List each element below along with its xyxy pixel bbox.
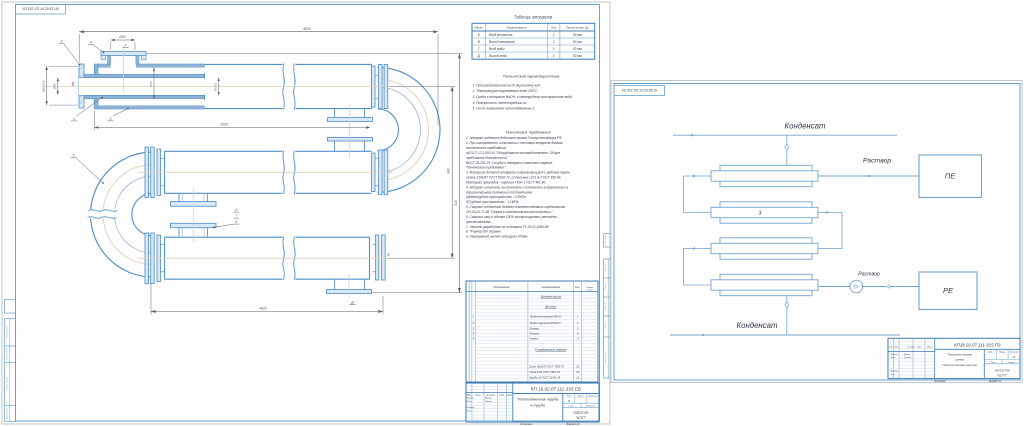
main title block (left sheet) [466, 383, 599, 426]
svg-text:Проход условн. Ду: Проход условн. Ду [566, 25, 589, 29]
svg-text:Дата: Дата [506, 394, 512, 396]
nozzle letter B inner tube [72, 82, 76, 88]
svg-text:Подп.: Подп. [917, 346, 922, 349]
connector element3-element4 (left) [684, 247, 712, 285]
svg-text:Лист: Лист [894, 347, 900, 349]
svg-text:Б: Б [478, 33, 480, 37]
svg-text:ПЕ: ПЕ [945, 172, 956, 181]
svg-text:КП 18.02.07.111-315.СБ: КП 18.02.07.111-315.СБ [22, 7, 59, 11]
svg-text:4600: 4600 [259, 306, 267, 310]
svg-text:Утв.: Утв. [891, 374, 896, 376]
svg-text:Разраб.: Разраб. [467, 398, 474, 400]
U-bend right (row1 to row2) [378, 67, 441, 192]
row2 right flange pair [372, 150, 388, 195]
svg-text:Кол: Кол [551, 25, 556, 29]
fittings table [472, 23, 595, 59]
svg-text:Масштаб: Масштаб [588, 396, 598, 398]
svg-text:Г: Г [478, 47, 480, 51]
nozzle letter D row3 bottom [350, 301, 356, 305]
nozzle on top of row2 right [328, 137, 373, 151]
position labels 6 7 8 [213, 208, 239, 228]
svg-text:Обозн.: Обозн. [474, 25, 483, 29]
svg-text:Формат А1: Формат А1 [566, 423, 580, 426]
svg-text:Н.контр.: Н.контр. [891, 371, 899, 373]
svg-text:Ø89х4,5*: Ø89х4,5* [42, 79, 46, 93]
svg-text:3: 3 [61, 40, 63, 44]
dimension 840 vertical [388, 87, 455, 259]
exchanger element 2 [711, 202, 818, 223]
svg-text:7: 7 [236, 214, 238, 218]
technical requirements text [465, 131, 571, 239]
svg-text:Лист: Лист [990, 362, 996, 364]
svg-text:Взам. инв.№: Взам. инв.№ [6, 376, 9, 389]
svg-text:Пояснительная записка: Пояснительная записка [942, 363, 977, 367]
svg-text:Масса: Масса [578, 396, 585, 398]
svg-text:Теплообменник труба: Теплообменник труба [517, 396, 559, 401]
svg-text:Колено: Колено [530, 337, 540, 341]
svg-text:ВОСТ 26-291-79 "Сосуды и аппар: ВОСТ 26-291-79 "Сосуды и аппараты стальн… [466, 161, 553, 165]
right margin stamp boxes [603, 234, 613, 378]
svg-text:Дата: Дата [926, 347, 932, 349]
right sheet paper [611, 81, 1022, 383]
exchanger element 3 [711, 238, 818, 259]
svg-text:3. Среда в аппарате NaOH, в ме: 3. Среда в аппарате NaOH, в межтрубном п… [473, 95, 573, 99]
svg-text:ГАПОУ РБ: ГАПОУ РБ [573, 411, 588, 415]
nozzle D under row3 right [327, 279, 372, 293]
svg-text:8. *Размер для справок: 8. *Размер для справок [466, 230, 501, 234]
svg-text:5: 5 [73, 153, 75, 157]
svg-text:1600: 1600 [220, 122, 228, 126]
svg-text:РЕ: РЕ [943, 286, 954, 295]
svg-text:КП18.02.07.111-315.ПЗ: КП18.02.07.111-315.ПЗ [622, 88, 657, 92]
svg-text:Ø57х3: Ø57х3 [214, 83, 218, 92]
svg-text:Вход воды: Вход воды [489, 47, 505, 51]
svg-text:Масса: Масса [999, 351, 1005, 353]
svg-text:1. Аппарат подлежит действию п: 1. Аппарат подлежит действию правил Госг… [466, 136, 562, 140]
svg-text:Раствор: Раствор [863, 158, 892, 165]
connector element2-element3 (right) [818, 211, 842, 248]
svg-text:Лит.: Лит. [565, 396, 571, 398]
svg-text:Инв.№ подл.: Инв.№ подл. [6, 326, 9, 338]
centerline nozzle G [122, 45, 124, 92]
svg-text:1: 1 [553, 47, 555, 51]
svg-text:И: И [568, 399, 570, 403]
svg-text:1: 1 [553, 40, 555, 44]
position label 5 [71, 153, 104, 184]
connector element1-element2 (left) [684, 175, 712, 213]
row2 left flange pair [145, 147, 165, 197]
svg-text:Стандартные изделия: Стандартные изделия [535, 348, 567, 352]
svg-text:Инв. №: Инв. № [604, 302, 607, 310]
centerline row2 [138, 171, 392, 173]
svg-text:Наименование: Наименование [507, 25, 527, 29]
row3 left flange pair [145, 233, 165, 283]
svg-text:Иванов: Иванов [485, 398, 491, 400]
solution line element1 to PE box [818, 158, 919, 178]
svg-text:Труба наружная Ø76х3,5: Труба наружная Ø76х3,5 [530, 321, 562, 325]
row2 pipe body [165, 151, 372, 194]
svg-text:Фланец: Фланец [530, 327, 540, 331]
svg-text:сталь Х18Н9Т ГОСТ 5632-72, ост: сталь Х18Н9Т ГОСТ 5632-72, остальных Ст3… [466, 176, 561, 180]
svg-text:Фланец: Фланец [530, 332, 540, 336]
svg-text:Выход метанола: Выход метанола [489, 40, 515, 44]
svg-text:1. Производительность по Ацети: 1. Производительность по Ацетилену кг/ч [473, 83, 541, 87]
svg-text:Материал прокладок - паронит П: Материал прокладок - паронит ПОН-1 ГОСТ … [466, 180, 546, 184]
svg-text:Кол.: Кол. [575, 286, 580, 289]
flange F1 (left, welded neck) [79, 64, 84, 108]
exchanger element 4 [711, 274, 818, 295]
svg-text:50 мм: 50 мм [573, 33, 583, 37]
svg-text:"КСПТ": "КСПТ" [997, 374, 1008, 378]
svg-text:Конденсат: Конденсат [785, 122, 826, 131]
svg-text:5. Сварные соединения должны с: 5. Сварные соединения должны соответство… [466, 205, 566, 209]
dimension 4600 bottom [151, 283, 383, 315]
svg-text:а)ГОСТ 12.2.003-91 "Оборудован: а)ГОСТ 12.2.003-91 "Оборудование произво… [466, 151, 560, 155]
left margin stamp boxes [5, 300, 16, 422]
svg-text:Пров.: Пров. [467, 401, 472, 403]
nozzle G (top, with flange) [101, 52, 146, 68]
svg-text:Подп.: Подп. [604, 284, 607, 290]
svg-text:Ковалев: Ковалев [904, 357, 911, 359]
svg-text:Формат А4: Формат А4 [989, 380, 1002, 383]
left sheet paper [2, 2, 610, 424]
svg-text:Инв.№ дубл.: Инв.№ дубл. [6, 407, 9, 419]
svg-text:Гайка М16 ГОСТ 5915-70: Гайка М16 ГОСТ 5915-70 [530, 370, 561, 374]
svg-text:Раствор: Раствор [858, 272, 880, 278]
svg-text:4: 4 [90, 41, 92, 45]
right sheet frame [614, 84, 1020, 381]
dimension d40 left inner [53, 78, 59, 95]
svg-text:Труба внутренняя Ø57х3: Труба внутренняя Ø57х3 [530, 315, 563, 319]
dimension d57 in pipe [214, 78, 220, 96]
svg-text:просвечиванием.: просвечиванием. [466, 220, 491, 224]
centerline nozzles mid left [192, 188, 194, 242]
svg-text:Копировал: Копировал [934, 381, 946, 383]
svg-text:1: 1 [553, 33, 555, 37]
technical characteristic text [472, 74, 573, 111]
svg-text:Подп.: Подп. [499, 393, 505, 396]
position label 1 [71, 97, 103, 121]
svg-text:В: В [387, 253, 390, 257]
svg-text:50 мм: 50 мм [573, 40, 583, 44]
centerline row3 [138, 257, 390, 259]
line element4 to pump [818, 286, 850, 288]
position label 3 [59, 40, 81, 66]
pump [850, 280, 863, 293]
svg-text:№ докум.: № докум. [907, 346, 915, 349]
svg-text:Листов: Листов [1007, 362, 1015, 364]
nozzle on top of row3 left [171, 223, 217, 237]
left sheet corner stamp (rotated doc number) [16, 5, 66, 15]
nozzle under row2 left [171, 193, 217, 206]
svg-text:Наименование: Наименование [542, 285, 561, 289]
svg-text:9. Неуказанный вылет штуцеров: 9. Неуказанный вылет штуцеров 100мм. [466, 235, 528, 239]
U-bend left (row2 to row3) [88, 152, 154, 277]
dimension d89x4.5 left [42, 66, 78, 105]
centerline nozzles mid right [349, 104, 351, 158]
svg-text:Выход воды: Выход воды [489, 54, 508, 58]
svg-text:2: 2 [109, 117, 112, 121]
svg-text:ОН-26-01-71-68 "Сварка в химич: ОН-26-01-71-68 "Сварка в химическом маши… [466, 210, 554, 214]
row3 right flange pair [373, 235, 386, 280]
svg-text:Технические требования: Технические требования [505, 131, 550, 135]
right sheet corner stamp [614, 86, 665, 96]
right sheet title block [888, 338, 1020, 383]
PE box [919, 155, 982, 198]
row1 right flange pair [372, 65, 388, 109]
svg-text:Копировал: Копировал [520, 423, 533, 426]
pump label rastvor [858, 272, 880, 278]
svg-text:Ковалев: Ковалев [485, 401, 492, 403]
svg-text:Справ. №: Справ. № [604, 263, 607, 273]
svg-text:840: 840 [447, 168, 451, 174]
svg-text:4800: 4800 [303, 27, 311, 31]
exchanger element 1 [711, 165, 818, 186]
svg-text:Иванов: Иванов [904, 354, 910, 356]
row3 pipe body [165, 237, 370, 280]
svg-text:Листов 1: Листов 1 [585, 406, 595, 408]
svg-text:Масштаб: Масштаб [1010, 351, 1019, 353]
svg-text:Вход метанола: Вход метанола [489, 33, 513, 37]
svg-text:2. При изготовлении, испытан: 2. При изготовлении, испытании и поставк… [465, 141, 564, 145]
svg-text:17: 17 [1012, 355, 1016, 359]
svg-text:2. Температура нагреваемой вод: 2. Температура нагреваемой воды 100°С [472, 89, 538, 93]
svg-text:Техническая характеристика: Техническая характеристика [503, 74, 560, 79]
svg-text:в трубе: в трубе [530, 402, 546, 407]
RE box [919, 272, 977, 310]
dimension 1600 [95, 111, 371, 130]
svg-text:50 мм: 50 мм [573, 54, 583, 58]
svg-text:горизонтальном положении под д: горизонтальном положении под давлением: [466, 190, 533, 194]
svg-text:6. Сварные швы в объеме 100% к: 6. Сварные швы в объеме 100% контролиров… [466, 215, 558, 219]
svg-text:Пров.: Пров. [891, 357, 896, 359]
svg-text:Подп.: Подп. [604, 323, 607, 329]
svg-text:Ø76: Ø76 [149, 81, 153, 87]
dimension d50 nozzle G [111, 35, 135, 50]
dimension 4800 (overall length) [79, 27, 438, 125]
svg-text:КП 16.02.07.111-315.СБ: КП 16.02.07.111-315.СБ [531, 387, 581, 392]
svg-text:Н.контр.: Н.контр. [467, 407, 475, 409]
line RE to pump [863, 285, 919, 288]
svg-text:Лит.: Лит. [987, 351, 993, 353]
svg-text:КП18.02.07.111-315.ПЗ: КП18.02.07.111-315.ПЗ [954, 342, 1001, 347]
svg-text:"КСПТ": "КСПТ" [576, 416, 588, 420]
svg-text:50 мм: 50 мм [573, 47, 583, 51]
condensate top line [673, 122, 897, 137]
drop to element1 with fitting symbol [785, 135, 789, 166]
svg-text:Утв.: Утв. [467, 410, 472, 412]
position label 2 [108, 108, 129, 121]
svg-text:3: 3 [759, 210, 762, 216]
svg-text:Детали: Детали [544, 305, 556, 309]
position label 4 [88, 41, 104, 54]
svg-text:7. Чертеж разработан на основа: 7. Чертеж разработан на основании ТУ 26-… [466, 225, 549, 229]
svg-text:требования безопасности.": требования безопасности." [466, 156, 510, 160]
centerline nozzle D [348, 274, 350, 298]
svg-text:б)Трубное пространство -: б)Трубное пространство - 1.1МПа [466, 200, 519, 204]
svg-text:Документация: Документация [540, 294, 562, 298]
svg-text:Болт М16х70 ГОСТ 7805-70: Болт М16х70 ГОСТ 7805-70 [530, 365, 565, 369]
centerline row1 [45, 86, 392, 88]
nozzle letter G [123, 43, 129, 47]
svg-text:ГАПОУ РБ: ГАПОУ РБ [995, 369, 1010, 373]
inner tube (pipe-in-pipe) [79, 73, 205, 100]
svg-text:№ докум.: № докум. [487, 393, 496, 396]
svg-text:1: 1 [73, 117, 75, 121]
svg-text:выполняться требования:: выполняться требования: [466, 146, 507, 150]
svg-text:5. Число элементов теплообменн: 5. Число элементов теплообменника 7. [473, 107, 536, 111]
svg-text:4. Аппарат испытать на прочно: 4. Аппарат испытать на прочность и плотн… [466, 185, 569, 189]
condensate bottom line [670, 321, 900, 336]
specification table [466, 281, 598, 382]
svg-text:Обозначение: Обозначение [493, 285, 510, 289]
svg-text:8: 8 [236, 220, 238, 224]
svg-text:910: 910 [454, 200, 458, 206]
row1 outer pipe thick walls (section) [95, 64, 205, 109]
row1 outer pipe body [95, 63, 372, 109]
nozzle letter V row3 [387, 253, 390, 257]
svg-text:Лист: Лист [474, 394, 480, 396]
dimension d76 in pipe [149, 68, 155, 99]
left sheet frame [16, 5, 600, 422]
svg-text:Инв.№ подл.: Инв.№ подл. [604, 351, 607, 363]
nozzle under row1 right [328, 109, 373, 121]
svg-text:схема: схема [955, 358, 964, 362]
svg-text:Технологическая: Технологическая [947, 353, 972, 357]
svg-text:4. Поверхность теплопередачи: 4. Поверхность теплопередачи м² [473, 101, 528, 105]
svg-text:Д: Д [350, 301, 354, 305]
svg-text:Перв. прим.: Перв. прим. [605, 234, 607, 246]
svg-text:Технические требования.": Технические требования." [466, 166, 507, 170]
svg-text:чание: чание [587, 289, 594, 291]
svg-text:а)Межтрубное пространство -: а)Межтрубное пространство - 0.3МПа [466, 195, 526, 199]
svg-text:Разраб.: Разраб. [891, 354, 898, 356]
svg-text:Лист: Лист [567, 406, 573, 408]
svg-text:Ø50: Ø50 [118, 35, 125, 39]
svg-text:Таблица штуцеров: Таблица штуцеров [514, 15, 553, 20]
svg-text:Конденсат: Конденсат [737, 321, 778, 330]
svg-text:3. Материал деталей аппарата с: 3. Материал деталей аппарата соприкасающ… [466, 171, 571, 175]
svg-text:1: 1 [553, 54, 555, 58]
svg-text:6: 6 [236, 208, 238, 212]
svg-text:Подп. и дата: Подп. и дата [6, 347, 9, 360]
svg-text:Шайба 16 ГОСТ 11371-78: Шайба 16 ГОСТ 11371-78 [530, 376, 561, 380]
drop from element4 with fitting symbol [785, 296, 789, 336]
fittings table title [514, 15, 553, 20]
dimension 910 vertical [146, 54, 462, 293]
svg-text:Ø40: Ø40 [53, 83, 57, 90]
